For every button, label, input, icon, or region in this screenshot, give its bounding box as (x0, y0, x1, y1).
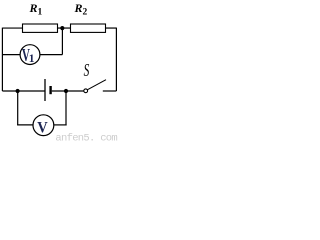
junction node B (left of battery) (16, 89, 20, 93)
voltmeter V1 (20, 45, 40, 65)
wire bus to V1 (2, 54, 20, 56)
wire top-left (bus corner to R1) (2, 27, 22, 29)
label S (84, 62, 90, 81)
battery long plate (44, 79, 46, 101)
wire node C down (65, 91, 67, 126)
wire R1 to R2 (58, 27, 71, 29)
svg-text:1: 1 (29, 53, 35, 65)
resistor R1 (23, 24, 58, 32)
wire R2 to right bus (106, 27, 117, 29)
resistor R2 (71, 24, 106, 32)
wire left bus (1, 28, 3, 91)
battery short plate (49, 86, 51, 94)
wire battery row left (2, 90, 45, 92)
wire bottom left to V (17, 124, 33, 126)
switch S pivot (84, 89, 88, 93)
label V1 (meter letter) (22, 47, 30, 66)
svg-text:anfen5. com: anfen5. com (55, 132, 117, 142)
wire V1 to node A riser (40, 54, 63, 56)
label V (meter letter) (37, 119, 47, 137)
junction node C (right of battery) (64, 89, 68, 93)
svg-text:S: S (84, 62, 90, 81)
wire right bus (115, 28, 117, 91)
wire V to node C riser (54, 124, 67, 126)
wire switch to right bus (103, 90, 117, 92)
wire node B down (17, 91, 19, 125)
junction node A (R1-R2 tap) (60, 26, 64, 30)
wire node A down to V1 row (61, 28, 63, 54)
switch S blade (88, 80, 107, 90)
voltmeter V (33, 115, 54, 136)
wire battery to switch (52, 90, 84, 92)
background (0, 0, 119, 142)
svg-text:V: V (37, 119, 47, 137)
